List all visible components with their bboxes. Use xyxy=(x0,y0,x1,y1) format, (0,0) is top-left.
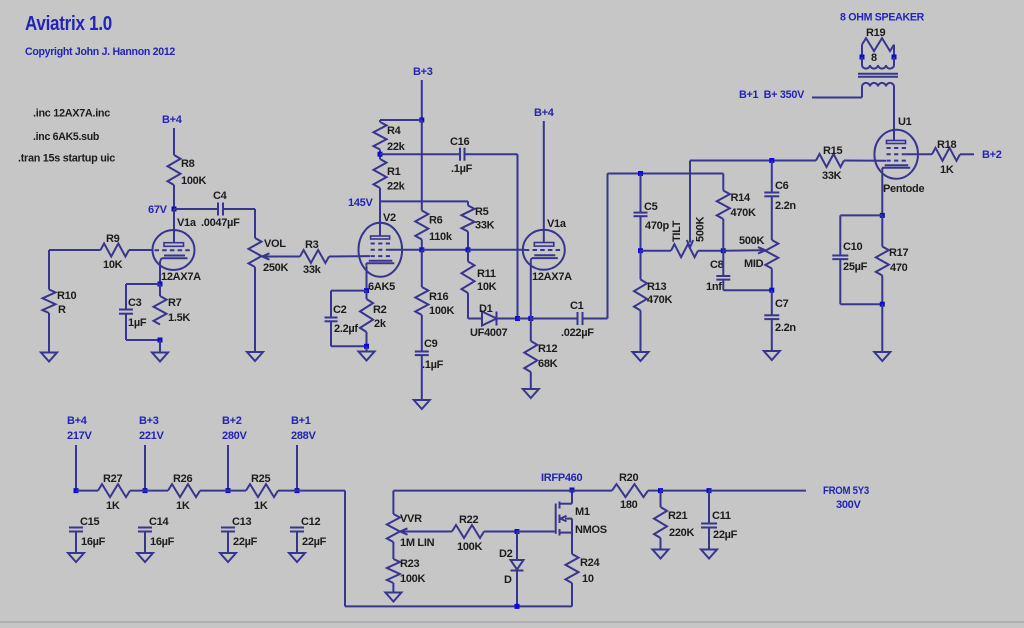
wire node to V1a second grid xyxy=(468,249,525,251)
svg-text:1K: 1K xyxy=(176,500,190,512)
svg-text:C7: C7 xyxy=(775,298,789,310)
svg-text:1µF: 1µF xyxy=(128,317,147,329)
svg-text:250K: 250K xyxy=(263,262,288,274)
junction V1a cathode node xyxy=(158,282,163,287)
resistor R4 xyxy=(374,122,387,150)
svg-text:2.2n: 2.2n xyxy=(775,200,796,212)
junction B+4 rail xyxy=(74,488,79,493)
junction D1/C16 node xyxy=(515,316,520,321)
svg-text:.0047µF: .0047µF xyxy=(201,217,240,229)
wire V2 screen to R6 node xyxy=(390,249,422,251)
svg-text:500K: 500K xyxy=(739,235,764,247)
capacitor C9 xyxy=(415,351,429,353)
capacitor C7 xyxy=(764,314,779,316)
svg-text:VOL: VOL xyxy=(264,238,286,250)
resistor R15 xyxy=(816,154,844,167)
wire U1 screen to R18 xyxy=(906,153,932,155)
wire R13 to ground xyxy=(640,311,642,353)
wire V2 cathode down xyxy=(366,266,368,291)
wire C13 to ground xyxy=(227,532,229,554)
junction B+2 rail xyxy=(226,488,231,493)
capacitor C12 xyxy=(290,527,304,529)
svg-text:180: 180 xyxy=(620,499,638,511)
svg-text:R11: R11 xyxy=(477,268,496,280)
svg-text:10: 10 xyxy=(582,573,594,585)
svg-text:B+2: B+2 xyxy=(222,415,242,427)
junction R4/R1/C16 node xyxy=(378,152,383,157)
svg-text:6AK5: 6AK5 xyxy=(368,281,395,293)
svg-text:220K: 220K xyxy=(669,527,694,539)
svg-text:C15: C15 xyxy=(80,516,99,528)
wire C7 to ground xyxy=(771,319,773,351)
potentiometer VVR 1M LIN xyxy=(387,514,400,542)
svg-text:12AX7A: 12AX7A xyxy=(161,271,201,283)
wire VVR top to drain rail xyxy=(393,490,572,492)
wire R1 to 145V node xyxy=(379,188,381,201)
transistor M1 (NMOS IRFP460) xyxy=(555,504,557,534)
svg-text:FROM 5Y3: FROM 5Y3 xyxy=(823,485,869,497)
potentiometer TILT 500K xyxy=(671,244,698,257)
wire D1 to node xyxy=(497,318,518,320)
wire node to C1 xyxy=(531,318,578,320)
wire R24 to bus xyxy=(571,583,573,606)
wire B+3 node to R6 xyxy=(421,120,423,211)
junction R6/V2 screen xyxy=(419,247,424,252)
wire top rail to VVR xyxy=(392,491,394,514)
wire cathode node to C3 xyxy=(126,283,160,285)
wire screen node to R5/R11 node xyxy=(422,249,468,251)
svg-text:R25: R25 xyxy=(251,473,270,485)
wire cathode network to ground xyxy=(159,340,161,353)
wire MID to bottom node xyxy=(771,269,773,291)
wire R9 to V1a grid xyxy=(129,249,153,251)
svg-text:IRFP460: IRFP460 xyxy=(541,472,582,484)
resistor R10 xyxy=(43,290,56,314)
svg-text:300V: 300V xyxy=(836,499,861,511)
svg-text:.inc 12AX7A.inc: .inc 12AX7A.inc xyxy=(33,108,110,120)
svg-text:1M LIN: 1M LIN xyxy=(400,537,435,549)
wire B+4 to R8 xyxy=(173,128,175,155)
svg-text:500K: 500K xyxy=(695,217,707,242)
wire VVR to R23 xyxy=(392,542,394,559)
ground under R13 xyxy=(633,352,649,361)
wire 145V to R5 xyxy=(380,200,468,202)
svg-text:C16: C16 xyxy=(450,136,469,148)
wire R25 to B+1 xyxy=(278,490,297,492)
svg-text:D: D xyxy=(504,574,512,586)
svg-text:C5: C5 xyxy=(644,201,658,213)
svg-text:R26: R26 xyxy=(173,473,192,485)
svg-text:R1: R1 xyxy=(387,166,401,178)
wire node to C8 xyxy=(722,251,724,276)
svg-text:R5: R5 xyxy=(475,206,489,218)
wire node to C7 xyxy=(771,290,773,315)
svg-text:R8: R8 xyxy=(181,158,195,170)
ground under C13 xyxy=(220,553,236,562)
ground under C15 xyxy=(68,553,84,562)
svg-text:R27: R27 xyxy=(103,473,122,485)
wire node to R12 xyxy=(530,319,532,342)
svg-text:C6: C6 xyxy=(775,180,789,192)
junction V1a cathode/C1/R12 node xyxy=(528,316,533,321)
svg-text:B+4: B+4 xyxy=(67,415,88,427)
capacitor C10 xyxy=(832,255,848,257)
wire C6 to MID top xyxy=(771,196,773,240)
resistor R5 xyxy=(462,206,475,232)
svg-text:221V: 221V xyxy=(139,430,164,442)
wire C16 to D1 output node xyxy=(465,153,518,155)
wire tone stack top rail xyxy=(608,173,724,175)
wire 67V node to C4 xyxy=(174,208,218,210)
resistor R11 xyxy=(462,262,475,294)
ground under C7 xyxy=(764,351,780,360)
wire B+3 node to R4 xyxy=(380,119,422,121)
svg-text:R2: R2 xyxy=(373,304,387,316)
wire VVR wiper to R22 xyxy=(410,531,452,533)
wire D2 to bus xyxy=(516,571,518,607)
junction TILT left/R13 xyxy=(638,248,643,253)
wire C5 to TILT node xyxy=(640,216,642,251)
wire to secondary right xyxy=(893,57,895,65)
svg-text:33k: 33k xyxy=(303,264,322,276)
svg-text:B+2: B+2 xyxy=(982,149,1002,161)
resistor R25 xyxy=(246,484,278,497)
wire C11 to ground xyxy=(708,528,710,550)
wire R14 to node xyxy=(722,219,724,251)
svg-text:470K: 470K xyxy=(731,207,756,219)
wire C14 to ground xyxy=(144,532,146,554)
junction speaker left xyxy=(860,55,865,60)
svg-text:M1: M1 xyxy=(575,506,590,518)
capacitor C8 xyxy=(716,275,730,277)
wire R15 to U1 grid xyxy=(844,160,886,162)
svg-text:.022µF: .022µF xyxy=(561,327,594,339)
svg-text:B+3: B+3 xyxy=(139,415,159,427)
potentiometer MID 500K xyxy=(765,240,778,269)
wire V1a cathode down xyxy=(159,261,161,284)
svg-text:R9: R9 xyxy=(106,233,120,245)
wire U1 cathode down xyxy=(881,171,883,216)
svg-text:R4: R4 xyxy=(387,125,402,137)
junction speaker right xyxy=(892,55,897,60)
junction 67V node xyxy=(172,207,177,212)
diode D2 xyxy=(516,532,518,561)
svg-text:1K: 1K xyxy=(254,500,268,512)
wire B+1 down xyxy=(296,445,298,491)
svg-text:288V: 288V xyxy=(291,430,316,442)
potentiometer VOL 250K xyxy=(249,238,262,267)
svg-text:B+3: B+3 xyxy=(413,66,433,78)
wire R11 to D1 xyxy=(467,293,469,319)
svg-text:U1: U1 xyxy=(898,116,912,128)
wire top rail to R14 xyxy=(722,174,724,191)
wire to secondary left xyxy=(861,57,863,65)
svg-text:B+4: B+4 xyxy=(534,107,555,119)
junction R7/C3 bottom xyxy=(158,338,163,343)
wire B+1 to bottom bus xyxy=(297,490,345,492)
wire R12 to ground xyxy=(530,372,532,389)
svg-text:100K: 100K xyxy=(181,175,206,187)
svg-text:R15: R15 xyxy=(823,145,842,157)
svg-text:22µF: 22µF xyxy=(233,536,258,548)
capacitor C3 xyxy=(119,309,133,311)
svg-text:.1µF: .1µF xyxy=(422,359,444,371)
wire R19 right down xyxy=(893,45,895,57)
svg-text:R19: R19 xyxy=(866,27,885,39)
junction MID bottom/C7/C8 xyxy=(769,288,774,293)
svg-text:100K: 100K xyxy=(429,305,454,317)
junction M1 drain xyxy=(570,488,575,493)
resistor R19 (speaker) xyxy=(862,38,894,51)
wire primary right to U1 plate xyxy=(893,87,895,142)
svg-text:MID: MID xyxy=(744,258,764,270)
wire to ground xyxy=(366,346,368,351)
junction TILT right/R14/C8/MID wiper xyxy=(721,248,726,253)
wire to R27 xyxy=(76,490,98,492)
svg-text:470p: 470p xyxy=(645,220,669,232)
svg-text:12AX7A: 12AX7A xyxy=(532,271,572,283)
svg-text:22µF: 22µF xyxy=(713,529,738,541)
triode V1a (second half 12AX7A) xyxy=(523,230,565,270)
resistor R7 xyxy=(154,296,167,325)
resistor R24 xyxy=(566,554,579,583)
wire 350V to primary left xyxy=(812,97,862,99)
svg-text:68K: 68K xyxy=(538,358,558,370)
svg-text:22k: 22k xyxy=(387,181,406,193)
svg-text:22µF: 22µF xyxy=(302,536,327,548)
junction gate/D2 node xyxy=(515,529,520,534)
wire node to C16 xyxy=(380,153,460,155)
capacitor C16 xyxy=(459,148,461,161)
svg-text:2.2n: 2.2n xyxy=(775,322,796,334)
wire R4 to R1 xyxy=(379,150,381,160)
wire R18 to B+2 xyxy=(960,153,974,155)
wire to ground xyxy=(881,304,883,352)
svg-text:R7: R7 xyxy=(168,297,182,309)
svg-text:C8: C8 xyxy=(710,259,724,271)
capacitor C11 xyxy=(701,523,717,525)
capacitor C1 xyxy=(577,312,579,325)
svg-text:R14: R14 xyxy=(731,192,751,204)
pentode U1 (output) xyxy=(874,130,918,179)
wire C9 to ground xyxy=(421,355,423,400)
svg-text:10K: 10K xyxy=(477,281,497,293)
wire R19 left down xyxy=(861,45,863,57)
wire B+3 down xyxy=(144,445,146,491)
wire R26 to R25 xyxy=(200,490,246,492)
wire C4 to VOL pot xyxy=(223,208,255,210)
capacitor C15 xyxy=(69,527,83,529)
transformer core xyxy=(858,73,898,75)
wire screen node to R16 xyxy=(421,250,423,287)
wire R3 to V2 grid xyxy=(329,255,370,257)
wire input node to R10 xyxy=(49,249,101,251)
wire R20 to node xyxy=(648,490,661,492)
svg-text:470: 470 xyxy=(890,262,908,274)
resistor R17 xyxy=(876,247,889,276)
ground under C11 xyxy=(701,550,717,559)
junction U1 cathode node xyxy=(880,213,885,218)
ground under R10 xyxy=(41,353,57,362)
wire to C11 node xyxy=(661,490,710,492)
svg-text:R13: R13 xyxy=(647,281,666,293)
wire tone output to R15 xyxy=(690,160,816,162)
svg-text:.tran 15s startup uic: .tran 15s startup uic xyxy=(18,153,115,165)
svg-text:.inc 6AK5.sub: .inc 6AK5.sub xyxy=(33,131,100,143)
wire R23 to ground xyxy=(392,583,394,593)
svg-text:25µF: 25µF xyxy=(843,261,868,273)
capacitor C13 xyxy=(221,527,235,529)
svg-text:2.2µf: 2.2µf xyxy=(334,323,358,335)
wire node to C10 xyxy=(840,214,882,216)
wire node to R13 xyxy=(640,251,642,280)
svg-text:VVR: VVR xyxy=(400,513,422,525)
wire R22 to gate node xyxy=(484,531,517,533)
junction C5 top xyxy=(638,171,643,176)
junction R17/C10 bottom xyxy=(880,302,885,307)
wire node to R11 xyxy=(467,250,469,262)
svg-text:R: R xyxy=(58,304,66,316)
wire 67V node to V1a plate xyxy=(173,209,175,243)
wire gate node to M1 gate xyxy=(517,531,555,533)
svg-text:C4: C4 xyxy=(213,190,228,202)
wire to cathode node xyxy=(518,318,531,320)
svg-text:33K: 33K xyxy=(822,170,842,182)
wire cathode to R2 xyxy=(366,291,368,299)
resistor R1 xyxy=(374,159,387,188)
wire to TILT left xyxy=(641,250,672,252)
svg-text:1K: 1K xyxy=(106,500,120,512)
resistor R12 xyxy=(524,341,537,372)
resistor R2 xyxy=(360,299,373,332)
wire B+2 down xyxy=(227,445,229,491)
svg-text:R20: R20 xyxy=(619,472,638,484)
svg-text:R22: R22 xyxy=(459,514,478,526)
wire drain to R20 xyxy=(572,490,612,492)
svg-text:C1: C1 xyxy=(570,300,584,312)
junction R2/C2 bottom xyxy=(364,344,369,349)
svg-text:145V: 145V xyxy=(348,197,373,209)
svg-text:D2: D2 xyxy=(499,548,513,560)
svg-text:B+1: B+1 xyxy=(291,415,311,427)
ground under R7/C3 xyxy=(152,353,168,362)
svg-text:C11: C11 xyxy=(712,510,731,522)
resistor R9 xyxy=(101,244,130,257)
svg-text:10K: 10K xyxy=(103,259,123,271)
wire node to C5 xyxy=(640,174,642,213)
svg-text:470K: 470K xyxy=(647,294,672,306)
resistor R6 xyxy=(415,211,428,240)
svg-text:B+1 B+ 350V: B+1 B+ 350V xyxy=(739,89,805,101)
svg-text:R24: R24 xyxy=(580,557,600,569)
svg-text:R12: R12 xyxy=(538,343,557,355)
wire cathode node to R7 xyxy=(159,284,161,296)
resistor R22 xyxy=(452,525,484,538)
wire R2 down xyxy=(366,332,368,346)
svg-text:.1µF: .1µF xyxy=(451,163,473,175)
wire C8 to MID bottom xyxy=(722,280,724,291)
wire VOL to ground xyxy=(254,267,256,352)
wire node to C11 xyxy=(708,491,710,524)
resistor R20 xyxy=(612,484,648,497)
svg-text:R21: R21 xyxy=(668,510,687,522)
svg-text:NMOS: NMOS xyxy=(575,524,607,536)
resistor R26 xyxy=(168,484,200,497)
junction B+3 node xyxy=(419,118,424,123)
svg-text:TILT: TILT xyxy=(671,220,683,242)
junction D2/bus xyxy=(515,604,520,609)
capacitor C4 xyxy=(217,203,219,216)
resistor R18 xyxy=(932,148,960,161)
resistor R3 xyxy=(300,250,329,263)
capacitor C5 xyxy=(634,212,648,214)
ground under R21 xyxy=(653,550,669,559)
svg-text:100K: 100K xyxy=(400,573,425,585)
svg-text:C12: C12 xyxy=(301,516,320,528)
junction V2 cathode node xyxy=(364,288,369,293)
ground under C14 xyxy=(137,553,153,562)
svg-text:C10: C10 xyxy=(843,241,862,253)
wire C15 to ground xyxy=(75,532,77,554)
wire to FROM 5Y3 xyxy=(709,490,806,492)
svg-text:R16: R16 xyxy=(429,291,448,303)
svg-text:C13: C13 xyxy=(232,516,251,528)
svg-text:217V: 217V xyxy=(67,430,92,442)
wire node to MID wiper xyxy=(723,249,760,251)
svg-text:Pentode: Pentode xyxy=(883,183,924,195)
svg-text:2k: 2k xyxy=(374,318,387,330)
wire 145V to V2 plate xyxy=(379,201,381,236)
wire C1 to tone stack xyxy=(583,318,608,320)
resistor R8 xyxy=(168,155,181,185)
junction C11 top xyxy=(707,488,712,493)
resistor R21 xyxy=(654,507,667,538)
svg-text:V2: V2 xyxy=(383,212,396,224)
svg-text:V1a: V1a xyxy=(177,217,197,229)
wire R17 down xyxy=(881,276,883,305)
svg-text:1.5K: 1.5K xyxy=(168,312,190,324)
svg-text:Aviatrix 1.0: Aviatrix 1.0 xyxy=(25,13,112,35)
resistor R27 xyxy=(98,484,130,497)
capacitor C2 xyxy=(325,317,338,319)
wire node to R21 xyxy=(660,491,662,507)
svg-text:8: 8 xyxy=(871,52,877,64)
svg-text:B+4: B+4 xyxy=(162,114,183,126)
pentode V2 (6AK5) xyxy=(359,223,403,277)
svg-text:16µF: 16µF xyxy=(150,536,175,548)
capacitor C14 xyxy=(138,527,152,529)
resistor R14 xyxy=(717,191,730,220)
svg-text:110k: 110k xyxy=(429,231,453,243)
wire R6 to screen node xyxy=(421,240,423,250)
svg-text:8 OHM SPEAKER: 8 OHM SPEAKER xyxy=(840,12,924,24)
junction R5/R11/grid node xyxy=(466,247,471,252)
svg-text:100K: 100K xyxy=(457,541,482,553)
junction B+3 rail xyxy=(143,488,148,493)
wire R21 to ground xyxy=(660,538,662,550)
svg-text:67V: 67V xyxy=(148,204,168,216)
svg-text:1nf: 1nf xyxy=(706,281,722,293)
svg-text:C2: C2 xyxy=(333,304,347,316)
resistor R23 xyxy=(387,559,400,583)
wire cathode node to C2 xyxy=(331,290,367,292)
resistor R13 xyxy=(634,280,647,311)
junction B+1 rail xyxy=(295,488,300,493)
ground under C12 xyxy=(289,553,305,562)
svg-text:C9: C9 xyxy=(424,338,438,350)
wire VOL wiper to R3 xyxy=(275,256,300,258)
wire node to C6 xyxy=(771,161,773,193)
